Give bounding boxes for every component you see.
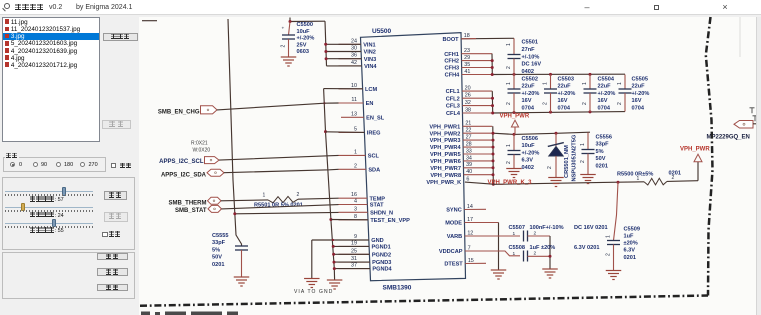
svg-text:9: 9 <box>354 234 357 240</box>
svg-text:1: 1 <box>513 251 516 257</box>
svg-text:R5500 0R±5%: R5500 0R±5% <box>617 171 653 177</box>
svg-text:25: 25 <box>351 248 357 254</box>
svg-text:APPS_I2C_SDA: APPS_I2C_SDA <box>161 173 207 179</box>
svg-text:PGND2: PGND2 <box>372 252 391 258</box>
svg-text:CR5501_NM: CR5501_NM <box>564 145 570 178</box>
svg-text:CFL2: CFL2 <box>446 96 460 102</box>
svg-text:50V: 50V <box>212 255 222 261</box>
svg-text:16V: 16V <box>598 98 608 104</box>
svg-text:10uF: 10uF <box>297 29 311 35</box>
svg-text:0704: 0704 <box>558 105 571 111</box>
svg-text:1: 1 <box>513 231 516 237</box>
svg-text:SMB_EN_CHG: SMB_EN_CHG <box>158 109 200 115</box>
svg-text:0402: 0402 <box>522 165 534 171</box>
svg-text:MODE: MODE <box>445 221 462 227</box>
svg-text:1: 1 <box>580 143 586 146</box>
svg-text:16V: 16V <box>632 98 642 104</box>
svg-text:1: 1 <box>506 43 512 46</box>
svg-text:8: 8 <box>354 214 357 220</box>
svg-text:1: 1 <box>582 82 588 85</box>
svg-text:DC 16V: DC 16V <box>522 62 542 68</box>
svg-text:VPH_PWR4: VPH_PWR4 <box>430 145 462 151</box>
svg-text:IREG: IREG <box>367 131 381 137</box>
svg-text:VPH_PWR1: VPH_PWR1 <box>429 124 460 130</box>
svg-text:2: 2 <box>534 230 537 236</box>
svg-text:+/-20%: +/-20% <box>598 91 616 97</box>
svg-text:1uF ±20%: 1uF ±20% <box>530 245 556 251</box>
svg-text:C5500: C5500 <box>297 22 313 28</box>
svg-text:50V: 50V <box>596 156 606 162</box>
svg-text:C5509: C5509 <box>624 226 640 232</box>
svg-text:CFH1: CFH1 <box>444 52 459 58</box>
svg-text:TEST_EN_VPP: TEST_EN_VPP <box>370 218 410 224</box>
svg-text:DTEST: DTEST <box>444 262 463 268</box>
svg-text:2: 2 <box>617 102 623 105</box>
svg-text:10uF: 10uF <box>522 143 536 149</box>
svg-text:VPH_PWR_K_3: VPH_PWR_K_3 <box>488 180 533 186</box>
svg-text:VIN1: VIN1 <box>363 42 375 48</box>
svg-text:1uF: 1uF <box>624 234 635 240</box>
svg-text:22uF: 22uF <box>522 84 536 90</box>
svg-text:+/-20%: +/-20% <box>522 150 540 156</box>
svg-text:VPH_PWR8: VPH_PWR8 <box>430 173 461 179</box>
svg-text:+/-20%: +/-20% <box>558 91 576 97</box>
svg-text:1: 1 <box>506 82 512 85</box>
svg-text:0201: 0201 <box>212 262 224 268</box>
svg-text:2: 2 <box>672 175 675 181</box>
svg-text:U5500: U5500 <box>372 28 392 35</box>
svg-text:W:0X20: W:0X20 <box>193 148 211 154</box>
svg-text:TEMP: TEMP <box>370 196 386 202</box>
svg-text:2: 2 <box>547 166 553 169</box>
svg-text:0402: 0402 <box>522 69 534 75</box>
svg-text:2: 2 <box>506 66 512 69</box>
svg-text:30: 30 <box>351 46 357 52</box>
svg-text:2: 2 <box>506 102 512 105</box>
svg-text:100nF+/-10%: 100nF+/-10% <box>530 225 564 231</box>
svg-text:CFH4: CFH4 <box>445 73 460 79</box>
svg-text:VPH_PWR6: VPH_PWR6 <box>430 159 461 165</box>
svg-text:+/-20%: +/-20% <box>522 91 540 97</box>
svg-text:22uF: 22uF <box>598 84 612 90</box>
svg-text:+: + <box>282 27 285 32</box>
svg-text:1: 1 <box>263 193 266 199</box>
svg-text:DC 16V 0201: DC 16V 0201 <box>574 225 608 231</box>
svg-text:0201: 0201 <box>596 163 608 169</box>
svg-text:VPH_PWR2: VPH_PWR2 <box>430 131 461 137</box>
svg-text:NSPU3051N2T5G: NSPU3051N2T5G <box>572 134 578 181</box>
svg-text:VIN3: VIN3 <box>364 57 376 63</box>
svg-text:2: 2 <box>280 45 286 48</box>
svg-text:C5503: C5503 <box>558 77 574 83</box>
svg-text:CFL3: CFL3 <box>446 104 460 110</box>
svg-text:6.3V: 6.3V <box>522 158 534 164</box>
svg-text:GND: GND <box>371 238 383 244</box>
svg-text:EN_SL: EN_SL <box>366 115 385 121</box>
svg-text:22uF: 22uF <box>632 84 646 90</box>
svg-text:VDDCAP: VDDCAP <box>439 249 463 255</box>
svg-text:1: 1 <box>506 144 512 147</box>
svg-text:SHDN_N: SHDN_N <box>370 210 393 216</box>
svg-text:2: 2 <box>580 160 586 163</box>
svg-text:SCL: SCL <box>368 154 380 160</box>
svg-text:16: 16 <box>351 192 357 198</box>
svg-text:C5502: C5502 <box>522 77 538 83</box>
svg-text:VARB: VARB <box>447 234 462 240</box>
svg-text:31: 31 <box>351 256 357 262</box>
svg-text:STAT: STAT <box>370 203 384 209</box>
svg-text:33pF: 33pF <box>596 142 610 148</box>
svg-text:BOOT: BOOT <box>442 37 459 43</box>
svg-text:CFH2: CFH2 <box>444 59 459 65</box>
svg-text:CFH3: CFH3 <box>445 66 460 72</box>
svg-text:0201: 0201 <box>624 255 636 261</box>
svg-text:LCM: LCM <box>365 87 377 93</box>
svg-text:VIN4: VIN4 <box>364 64 377 70</box>
svg-text:SDA: SDA <box>368 167 380 173</box>
svg-text:36: 36 <box>351 53 357 59</box>
svg-text:SYNC: SYNC <box>446 208 462 214</box>
svg-text:VPH_PWR7: VPH_PWR7 <box>430 166 461 172</box>
svg-text:CFL4: CFL4 <box>446 111 461 117</box>
svg-text:C5507: C5507 <box>509 225 525 231</box>
svg-text:VPH_PWR: VPH_PWR <box>500 114 530 120</box>
svg-text:±20%: ±20% <box>624 241 638 247</box>
svg-text:16V: 16V <box>558 98 568 104</box>
svg-text:5%: 5% <box>212 247 220 253</box>
svg-text:0603: 0603 <box>297 49 309 55</box>
svg-text:1: 1 <box>637 176 640 182</box>
svg-text:4: 4 <box>354 199 357 205</box>
svg-text:1: 1 <box>542 82 548 85</box>
svg-text:27nF: 27nF <box>522 47 536 53</box>
svg-text:5%: 5% <box>596 149 604 155</box>
svg-text:1: 1 <box>617 82 623 85</box>
svg-text:+/-10%: +/-10% <box>522 54 540 60</box>
svg-text:VPH_PWR5: VPH_PWR5 <box>430 152 461 158</box>
svg-text:5: 5 <box>354 126 357 132</box>
svg-text:APPS_I2C_SCL: APPS_I2C_SCL <box>159 159 204 165</box>
svg-text:19: 19 <box>351 240 357 246</box>
svg-text:0201: 0201 <box>669 170 681 176</box>
svg-text:C5506: C5506 <box>522 136 538 142</box>
svg-text:C5508: C5508 <box>509 245 525 251</box>
svg-text:22uF: 22uF <box>558 84 572 90</box>
svg-text:16V: 16V <box>522 98 532 104</box>
svg-text:13: 13 <box>351 111 357 117</box>
svg-text:C5555: C5555 <box>212 233 228 239</box>
svg-text:SMB1390: SMB1390 <box>383 285 412 292</box>
svg-text:2: 2 <box>605 253 611 256</box>
svg-text:PGND1: PGND1 <box>371 245 390 251</box>
svg-text:SMB_THERM: SMB_THERM <box>168 201 206 207</box>
svg-text:VIN2: VIN2 <box>363 50 375 56</box>
svg-text:25V: 25V <box>297 42 307 48</box>
svg-text:+/-20%: +/-20% <box>297 36 315 42</box>
svg-text:CFL1: CFL1 <box>446 89 460 95</box>
svg-text:SMB_STAT: SMB_STAT <box>175 208 207 214</box>
svg-text:1: 1 <box>354 149 357 155</box>
svg-text:2: 2 <box>582 102 588 105</box>
svg-text:0704: 0704 <box>522 105 535 111</box>
svg-text:VPH_PWR3: VPH_PWR3 <box>430 138 461 144</box>
svg-text:EN: EN <box>366 101 374 107</box>
svg-text:0704: 0704 <box>632 105 645 111</box>
svg-text:2: 2 <box>534 250 537 256</box>
svg-text:6.3V 0201: 6.3V 0201 <box>574 245 600 251</box>
svg-text:37: 37 <box>351 263 357 269</box>
svg-text:0704: 0704 <box>598 105 611 111</box>
svg-text:VPH_PWR: VPH_PWR <box>680 147 710 153</box>
svg-text:C5556: C5556 <box>596 135 612 141</box>
svg-text:11: 11 <box>351 97 357 103</box>
svg-text:6.3V: 6.3V <box>624 248 636 254</box>
svg-text:PGND3: PGND3 <box>372 260 391 266</box>
svg-text:6: 6 <box>466 177 469 183</box>
svg-text:42: 42 <box>351 60 357 66</box>
svg-text:2: 2 <box>297 192 300 198</box>
svg-text:C5504: C5504 <box>598 77 615 83</box>
svg-text:10: 10 <box>351 83 357 89</box>
svg-text:2: 2 <box>542 102 548 105</box>
svg-text:C5501: C5501 <box>522 40 538 46</box>
svg-text:2: 2 <box>506 161 512 164</box>
svg-text:1: 1 <box>605 235 611 238</box>
svg-text:VIA TO GND: VIA TO GND <box>294 289 333 295</box>
svg-text:VPH_PWR_K: VPH_PWR_K <box>426 180 461 186</box>
svg-text:3: 3 <box>354 206 357 212</box>
svg-text:33pF: 33pF <box>212 240 226 246</box>
svg-text:24: 24 <box>351 38 357 44</box>
svg-text:C5505: C5505 <box>632 77 648 83</box>
svg-text:R:0X21: R:0X21 <box>191 141 208 147</box>
svg-text:PGND4: PGND4 <box>372 267 392 273</box>
svg-text:+/-20%: +/-20% <box>632 91 650 97</box>
svg-text:2: 2 <box>354 163 357 169</box>
